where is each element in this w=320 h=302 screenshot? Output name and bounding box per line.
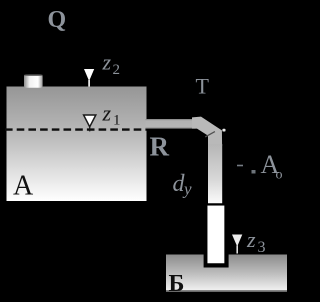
dashed water level line <box>5 128 147 130</box>
svg-text:2: 2 <box>113 62 121 78</box>
svg-text:z: z <box>246 227 256 252</box>
level marker z2 (solid) <box>84 69 94 81</box>
tank filler tab <box>24 75 43 88</box>
svg-text:R: R <box>150 132 170 162</box>
svg-text:у: у <box>182 180 192 199</box>
vertical pipe (upper, gray) <box>208 144 222 204</box>
label A0 (right) <box>237 165 243 167</box>
horizontal pipe <box>146 119 196 129</box>
svg-text:Б: Б <box>169 271 185 297</box>
elbow miter joint line <box>205 132 215 137</box>
container notch <box>204 255 229 268</box>
svg-text:3: 3 <box>258 239 266 256</box>
svg-text:Q: Q <box>48 7 67 33</box>
svg-text:А: А <box>13 171 34 202</box>
tank A body <box>7 87 147 202</box>
container bottom edge <box>166 290 287 292</box>
svg-text:Т: Т <box>196 74 210 99</box>
container B body <box>166 255 287 291</box>
vertical pipe (lower, white with dark walls) <box>206 204 225 264</box>
level marker z1 (open) <box>84 115 96 127</box>
svg-text:z: z <box>102 50 112 75</box>
pipe elbow <box>192 117 222 146</box>
level marker z3 (solid) <box>232 235 242 247</box>
svg-text:1: 1 <box>113 113 121 129</box>
elbow corner tick <box>222 129 225 132</box>
svg-text:о: о <box>276 168 283 183</box>
svg-text:z: z <box>102 101 112 126</box>
